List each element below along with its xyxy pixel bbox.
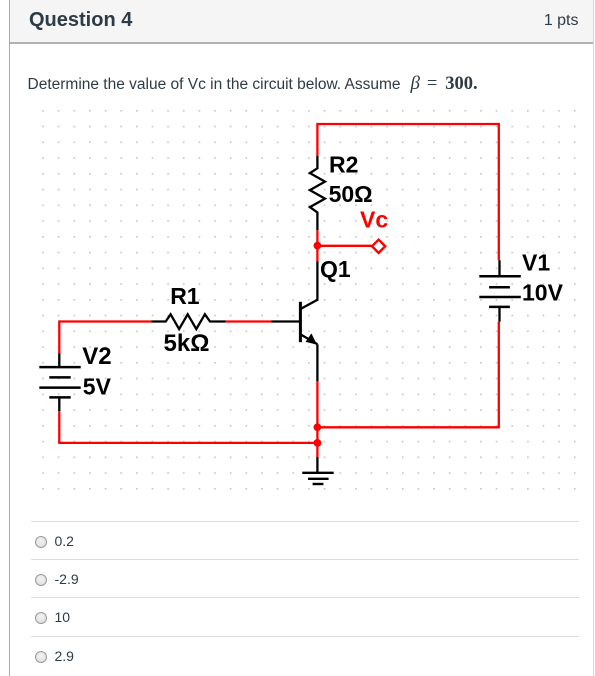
wire R2 bottom to collector node	[316, 230, 318, 261]
svg-text:50Ω: 50Ω	[329, 181, 373, 207]
wire bottom right rail	[317, 426, 498, 428]
label R2	[329, 151, 358, 177]
wire V2 bottom lead red	[58, 411, 60, 443]
svg-text:V1: V1	[522, 250, 550, 276]
wire base black to Q1	[271, 320, 299, 322]
wire V1 bottom lead red	[498, 322, 500, 429]
svg-text:5kΩ: 5kΩ	[164, 330, 210, 357]
wire Vc probe	[317, 245, 371, 247]
wire top rail	[317, 123, 498, 125]
label V2	[82, 343, 111, 370]
svg-text:Q1: Q1	[320, 256, 351, 282]
wire emitter down black	[316, 344, 318, 381]
resistor R2	[310, 156, 325, 231]
wire left rail top	[59, 320, 151, 322]
wire emitter down red	[316, 381, 318, 457]
svg-text:10V: 10V	[522, 280, 564, 306]
value 5V	[83, 374, 112, 400]
junction node to V1 return	[314, 423, 322, 431]
label Q1	[320, 256, 351, 282]
ground	[302, 473, 333, 484]
battery V1	[479, 260, 521, 322]
value 50Ω	[329, 181, 373, 207]
svg-text:R2: R2	[329, 151, 358, 177]
label V1	[522, 250, 550, 276]
svg-text:R1: R1	[170, 283, 200, 309]
node Vc diamond	[372, 240, 385, 253]
value 10V	[522, 280, 564, 306]
svg-text:Vc: Vc	[360, 207, 388, 233]
wire bottom left rail	[58, 442, 317, 444]
label Vc	[360, 207, 388, 233]
svg-text:V2: V2	[82, 343, 111, 370]
label R1	[170, 283, 200, 309]
wire right rail down	[498, 123, 500, 260]
resistor R1	[151, 314, 226, 329]
wire V2 top lead red	[58, 320, 60, 353]
wire R2 top lead	[316, 123, 318, 156]
value 5kΩ	[164, 330, 210, 357]
svg-text:5V: 5V	[83, 374, 112, 400]
junction node to V2 return	[314, 439, 322, 447]
junction node collector	[314, 242, 322, 250]
transistor Q1	[300, 262, 317, 345]
wire base red from R1	[226, 320, 272, 322]
wire ground lead	[316, 457, 318, 473]
battery V2	[39, 353, 80, 411]
